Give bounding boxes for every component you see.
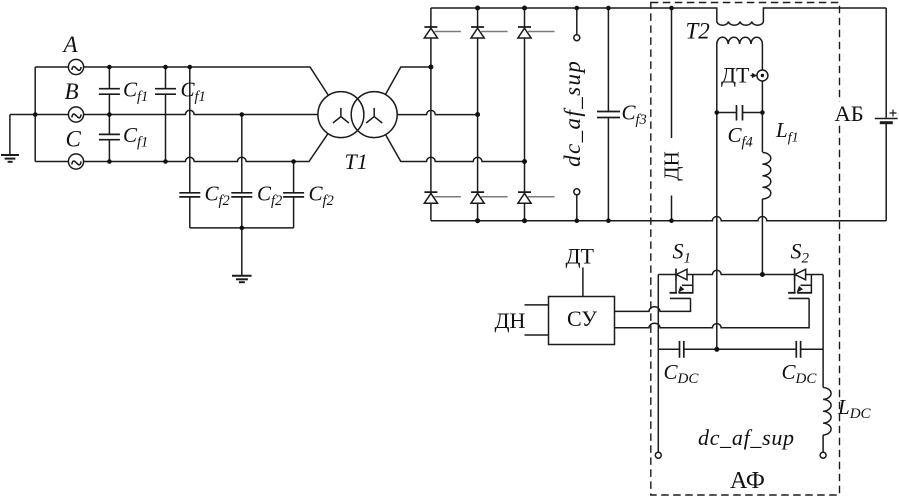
svg-text:dc_af_sup: dc_af_sup: [698, 425, 795, 450]
svg-text:СУ: СУ: [567, 306, 597, 331]
svg-text:T1: T1: [345, 149, 368, 174]
svg-text:ДТ: ДТ: [566, 244, 595, 269]
svg-text:T2: T2: [686, 18, 710, 43]
svg-text:A: A: [62, 32, 79, 57]
svg-text:ДТ: ДТ: [721, 63, 750, 88]
svg-text:dc_af_sup: dc_af_sup: [560, 60, 585, 167]
svg-text:ДН: ДН: [660, 151, 684, 181]
svg-text:C: C: [66, 126, 82, 151]
svg-text:АБ: АБ: [835, 101, 864, 126]
svg-text:АФ: АФ: [730, 468, 765, 494]
svg-text:B: B: [65, 79, 79, 104]
svg-text:ДН: ДН: [495, 308, 526, 333]
